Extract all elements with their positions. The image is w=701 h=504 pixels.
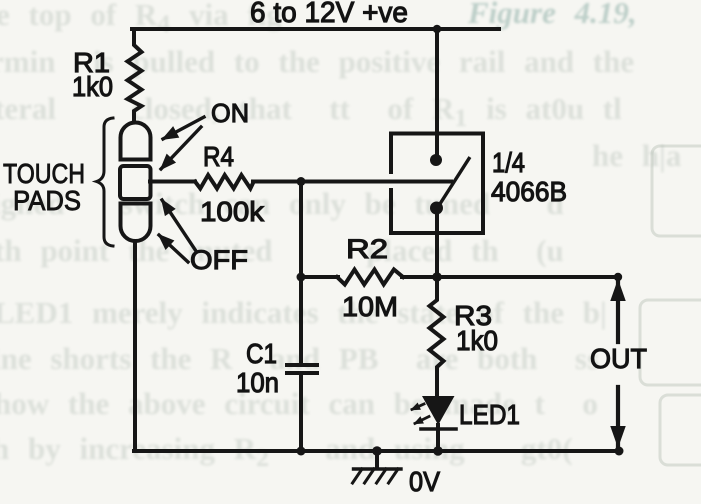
arrow: ON to top pad bbox=[163, 117, 204, 139]
touch pad middle bbox=[120, 166, 151, 199]
switch lever bbox=[441, 159, 470, 204]
ghost bleed-through text from overleaf page (decorative) bbox=[0, 0, 282, 39]
wire: +V top rail bbox=[132, 27, 499, 31]
wire: LED to 0V rail bbox=[436, 425, 440, 451]
wire: 0V bottom rail bbox=[134, 449, 620, 453]
svg-text:10M: 10M bbox=[342, 291, 398, 322]
resistor R1 bbox=[128, 29, 142, 121]
svg-text:PADS: PADS bbox=[13, 185, 81, 216]
svg-text:OFF: OFF bbox=[190, 245, 248, 275]
wire: branch down to C1 bbox=[299, 182, 303, 364]
OUT arrow down bbox=[616, 387, 620, 446]
wire: 4066 bottom out bbox=[435, 208, 439, 277]
LED light arrow upper bbox=[412, 404, 424, 409]
svg-text:C1: C1 bbox=[246, 338, 277, 369]
LED1 diode triangle bbox=[422, 396, 455, 425]
svg-text:6 to 12V +ve: 6 to 12V +ve bbox=[250, 0, 408, 29]
resistor R2 bbox=[337, 270, 403, 285]
svg-text:OUT: OUT bbox=[590, 343, 647, 374]
pin: 4066 top contact bbox=[430, 154, 442, 166]
wire: C1 to 0V rail bbox=[299, 375, 303, 451]
wire: +V rail down into 4066 bbox=[435, 31, 439, 158]
svg-text:100k: 100k bbox=[200, 196, 265, 227]
svg-text:1k0: 1k0 bbox=[72, 71, 113, 102]
node: OUT bottom bbox=[615, 447, 624, 456]
svg-text:R4: R4 bbox=[203, 141, 234, 172]
pin: 4066 bottom contact bbox=[430, 202, 443, 215]
svg-text:0V: 0V bbox=[409, 466, 440, 497]
OUT arrow up bbox=[616, 281, 620, 342]
svg-text:LED1: LED1 bbox=[459, 399, 520, 430]
arrow: ON to middle pad bbox=[161, 127, 201, 169]
wire: R2 row left bbox=[301, 275, 338, 279]
node: +V junction to 4066 bbox=[433, 25, 442, 34]
node: R2 left junction bbox=[297, 273, 306, 282]
wire: R4 to 4066 control bbox=[253, 180, 451, 184]
switch U1 4066B box bbox=[391, 134, 483, 234]
resistor R4 bbox=[195, 175, 254, 189]
touch pad bottom bbox=[121, 204, 151, 242]
wire: R2 row right to OUT bbox=[402, 275, 618, 279]
node: LED bottom bbox=[433, 446, 443, 456]
ground symbol bbox=[372, 446, 382, 456]
svg-text:ON: ON bbox=[211, 98, 249, 128]
arrow: OFF to middle pad bbox=[162, 200, 196, 251]
node: OUT top bbox=[614, 273, 622, 281]
LED1 cathode bar bbox=[421, 427, 456, 431]
svg-text:1/4: 1/4 bbox=[492, 147, 525, 178]
svg-text:R2: R2 bbox=[346, 234, 388, 264]
touch pad top bbox=[121, 123, 151, 160]
wire: touch pads down to 0V rail bbox=[133, 242, 137, 451]
capacitor C1 bottom plate bbox=[287, 371, 317, 375]
arrow: OFF to bottom pad bbox=[159, 235, 188, 262]
ghost figure frames bleed-through (decorative) bbox=[640, 146, 701, 465]
brace for touch pads bbox=[97, 118, 114, 246]
resistor R3 bbox=[430, 277, 444, 396]
capacitor C1 top plate bbox=[287, 363, 317, 367]
node: R4 / C1 / R2 branch bbox=[297, 177, 306, 186]
svg-text:4066B: 4066B bbox=[491, 176, 567, 207]
svg-text:1k0: 1k0 bbox=[456, 325, 498, 356]
node: R2/R3 junction bbox=[432, 272, 442, 282]
svg-text:10n: 10n bbox=[236, 367, 279, 398]
node: C1 bottom bbox=[297, 447, 306, 456]
LED light arrow lower bbox=[415, 417, 429, 424]
wire: middle pad to R4 bbox=[150, 180, 195, 184]
